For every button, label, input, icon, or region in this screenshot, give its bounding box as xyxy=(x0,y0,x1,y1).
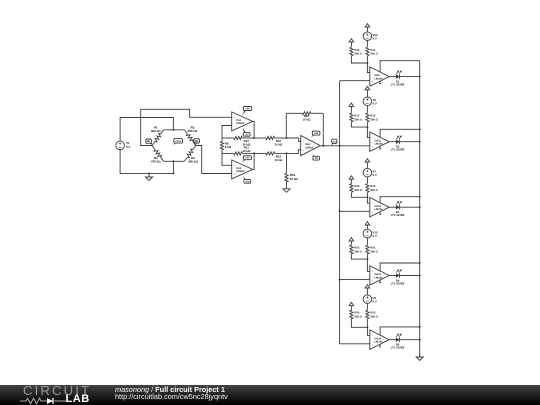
svg-text:LTL-307EE: LTL-307EE xyxy=(391,83,405,86)
svg-text:5 V: 5 V xyxy=(373,300,377,304)
power flag (stage 1 left) xyxy=(349,39,354,47)
wire divider rail stage 5 xyxy=(351,319,367,327)
wire V12 to R21 xyxy=(366,238,368,245)
wire R23 to rail xyxy=(366,319,368,327)
wire OA6 V+ to right bus xyxy=(380,61,420,72)
wire bridge bottom edge xyxy=(164,160,185,162)
wire D1 to right bus xyxy=(399,76,419,78)
svg-text:-5V: -5V xyxy=(245,180,249,183)
junction ground tap xyxy=(148,172,150,174)
junction right bus / D5 xyxy=(419,339,421,341)
wire bus to OA13 + input xyxy=(340,279,370,281)
wire to OA13 - input xyxy=(367,259,369,271)
resistor R16 (OA3 feedback) xyxy=(286,112,302,114)
wire bridge bottom to rail xyxy=(172,161,174,173)
svg-text:W2: W2 xyxy=(195,140,199,143)
power flag (stage 5 supply) xyxy=(365,285,370,295)
resistor R22 xyxy=(350,244,352,247)
svg-text:LM324: LM324 xyxy=(236,170,245,173)
power flag -5V (OA3) xyxy=(311,154,320,160)
svg-text:R20: R20 xyxy=(354,185,359,188)
svg-text:500 Ω: 500 Ω xyxy=(354,315,362,318)
svg-text:R22: R22 xyxy=(354,247,359,250)
wire OA12 output to D3 xyxy=(389,206,396,208)
svg-text:500 Ω: 500 Ω xyxy=(354,52,362,55)
svg-text:R23: R23 xyxy=(370,312,375,315)
svg-text:500 Ω: 500 Ω xyxy=(370,315,378,318)
svg-text:10 kΩ: 10 kΩ xyxy=(303,118,312,122)
svg-text:R17: R17 xyxy=(354,115,359,118)
wire right bus (LED return) xyxy=(419,61,421,357)
wire OA2 output up xyxy=(253,153,255,169)
junction bridge bottom vertex xyxy=(172,160,174,162)
wire to OA12 - input xyxy=(367,197,369,203)
wire R14 to rail xyxy=(366,56,368,63)
svg-text:800 kΩ: 800 kΩ xyxy=(188,159,198,163)
resistor R2 (bridge top-right) xyxy=(185,130,188,134)
power flag +5V (OA1) xyxy=(242,107,252,116)
op-amp OA13 LM324 xyxy=(370,266,389,285)
wire divider rail stage 3 xyxy=(351,193,367,198)
svg-text:LM324: LM324 xyxy=(374,77,383,80)
wire OA14 V- stub xyxy=(379,344,381,347)
svg-text:+5V: +5V xyxy=(314,132,319,135)
node flag Vout (OA3 output) xyxy=(331,139,337,145)
resistor R15 xyxy=(350,46,352,49)
wire V1- bottom rail xyxy=(120,150,173,174)
wire R18 to ground xyxy=(286,183,288,185)
resistor R11 (OA2 feedback) xyxy=(222,152,234,154)
wire feedback left leg xyxy=(285,113,287,138)
wire OA3 output to comparator stage xyxy=(320,145,370,147)
wire W1 tap to OA1 + xyxy=(141,109,232,145)
wire OA6 output to D1 xyxy=(389,76,396,78)
pin tick OA13 V- xyxy=(379,282,381,284)
svg-text:500 Ω: 500 Ω xyxy=(370,250,378,253)
svg-text:10 kΩ: 10 kΩ xyxy=(274,158,283,162)
wire V6 to R16 xyxy=(366,106,368,113)
wire bus to OA12 + input xyxy=(340,210,370,212)
wire OA13 V+ to right bus xyxy=(380,263,420,271)
svg-text:500 Ω: 500 Ω xyxy=(370,118,378,121)
wire R19 to rail xyxy=(366,193,368,198)
svg-text:Vout: Vout xyxy=(332,140,337,143)
wire V7 to R19 xyxy=(366,177,368,183)
wire OA14 output to D5 xyxy=(389,339,396,341)
junction OA3 - node xyxy=(285,137,287,139)
ground at right bus bottom xyxy=(416,353,423,360)
wire V10 to R14 xyxy=(366,41,368,47)
wire OA11 output to D2 xyxy=(389,141,396,143)
LED D2 xyxy=(391,135,405,151)
junction bridge top vertex xyxy=(172,129,174,131)
power flag +5V (OA3) xyxy=(311,131,320,137)
junction right bus / V+ stage 4 xyxy=(419,262,421,264)
svg-text:LM324: LM324 xyxy=(374,143,383,146)
svg-text:-5V: -5V xyxy=(314,157,318,160)
pin tick OA14 V- xyxy=(379,346,381,348)
op-amp OA11 LM324 xyxy=(370,132,389,151)
junction right bus / V+ stage 3 xyxy=(419,196,421,198)
svg-text:5 V: 5 V xyxy=(373,173,377,177)
svg-text:500 Ω: 500 Ω xyxy=(354,250,362,253)
node flag VOUT (bridge center) xyxy=(173,139,182,145)
svg-text:500 Ω: 500 Ω xyxy=(370,189,378,192)
power flag (stage 4 supply) xyxy=(365,222,370,230)
wire OA12 V+ to right bus xyxy=(380,197,420,203)
wire signal bus (left vertical) xyxy=(339,81,341,344)
junction divider node stage 1 xyxy=(366,62,368,64)
svg-text:+5V: +5V xyxy=(245,108,250,111)
wire D5 to right bus xyxy=(399,339,419,341)
wire OA1 - to top rail xyxy=(222,126,232,139)
svg-text:LM324: LM324 xyxy=(374,276,383,279)
ground at bottom rail xyxy=(146,173,153,180)
wire OA14 V+ to right bus xyxy=(380,327,420,335)
wire divider rail stage 4 xyxy=(351,254,367,259)
resistor R20 xyxy=(350,182,352,185)
wire OA1 output down xyxy=(253,121,255,138)
node bottom rail corner xyxy=(172,172,174,174)
wire to OA6 - input xyxy=(367,63,369,73)
svg-text:LTL-307EE: LTL-307EE xyxy=(391,282,405,285)
node flag W2 (bridge right) xyxy=(194,139,199,146)
wire W2 tap to OA2 + xyxy=(196,146,232,174)
svg-text:LM324: LM324 xyxy=(374,341,383,344)
svg-text:+5V: +5V xyxy=(245,157,250,160)
op-amp OA2 LM324 xyxy=(232,160,253,179)
svg-text:500 Ω: 500 Ω xyxy=(354,118,362,121)
wire bus to OA6 + input xyxy=(340,80,370,82)
wire D4 to right bus xyxy=(399,275,419,277)
junction right bus / D3 xyxy=(419,206,421,208)
LED D4 xyxy=(391,269,405,285)
wire OA13 V- stub xyxy=(379,280,381,283)
voltage source V9 xyxy=(363,295,372,304)
wire to R18 xyxy=(286,153,288,172)
resistor R21 xyxy=(366,244,368,247)
wire divider rail stage 2 xyxy=(351,122,367,127)
svg-text:10 kΩ: 10 kΩ xyxy=(242,149,251,153)
svg-text:LM324: LM324 xyxy=(236,122,245,125)
junction feedback at output xyxy=(322,145,324,147)
wire OA12 V- stub xyxy=(379,212,381,215)
junction bus stage 3 xyxy=(339,210,341,212)
wire to OA3 + input xyxy=(287,150,301,154)
svg-text:800 kΩ: 800 kΩ xyxy=(188,129,198,133)
resistor R23 xyxy=(366,309,368,312)
power flag (stage 1 supply) xyxy=(365,24,370,32)
junction bus stage 4 xyxy=(339,279,341,281)
svg-text:LM324: LM324 xyxy=(305,146,314,149)
junction OA2 out / rail xyxy=(253,152,255,154)
power flag (stage 3 supply) xyxy=(365,159,370,169)
power flag -5V (OA2) xyxy=(242,176,251,183)
wire R16 to rail xyxy=(366,122,368,127)
svg-text:4 kΩ: 4 kΩ xyxy=(225,145,232,149)
wire D2 to right bus xyxy=(399,141,419,143)
power flag (stage 5 left) xyxy=(349,302,354,309)
junction OA3 + node xyxy=(286,152,288,154)
wire to OA11 - input xyxy=(367,127,369,138)
resistor R9 (gain) xyxy=(221,138,223,141)
junction right bus / V+ stage 2 xyxy=(419,128,421,130)
resistor R19 xyxy=(366,182,368,185)
wire D3 to right bus xyxy=(399,206,419,208)
voltage source V6 xyxy=(363,97,372,106)
junction divider node stage 2 xyxy=(366,126,368,128)
wire V1+ to bridge top xyxy=(120,118,173,142)
resistor R1 (bridge top-left) xyxy=(152,141,155,145)
wire feedback right leg xyxy=(322,113,324,146)
wire to OA3 - input xyxy=(286,138,300,142)
resistor R4 (bridge bottom-right) xyxy=(193,146,196,150)
pin tick OA12 V- xyxy=(379,213,381,215)
voltage source V10 xyxy=(363,32,372,41)
svg-text:5 V: 5 V xyxy=(373,37,377,41)
resistor R24 xyxy=(350,309,352,312)
power flag (stage 2 left) xyxy=(349,103,354,113)
svg-text:R19: R19 xyxy=(370,185,375,188)
ground under R18 xyxy=(283,185,290,192)
voltage source V7 xyxy=(363,168,372,177)
svg-text:W1: W1 xyxy=(147,140,151,143)
wire to OA14 - input xyxy=(367,327,369,335)
svg-text:R16: R16 xyxy=(370,115,375,118)
svg-text:R24: R24 xyxy=(354,312,359,315)
pin tick OA6 V- xyxy=(379,83,381,85)
LED D3 xyxy=(391,201,405,217)
op-amp OA1 LM324 xyxy=(232,112,253,131)
wire divider rail stage 1 xyxy=(351,56,367,63)
svg-text:10 kΩ: 10 kΩ xyxy=(290,177,299,181)
svg-text:800 kΩ: 800 kΩ xyxy=(151,129,161,133)
wire V9 to R23 xyxy=(366,304,368,310)
power flag -5V (OA1) xyxy=(242,127,250,136)
junction right bus / D1 xyxy=(419,76,421,78)
svg-text:5 V: 5 V xyxy=(373,102,377,106)
svg-text:LTL-307EE: LTL-307EE xyxy=(391,149,405,152)
svg-text:5 V: 5 V xyxy=(373,234,377,238)
wire OA13 output to D4 xyxy=(389,275,396,277)
wire bus to OA14 + input xyxy=(340,343,370,345)
svg-text:5 V: 5 V xyxy=(126,145,130,149)
junction divider node stage 3 xyxy=(366,196,368,198)
op-amp OA14 LM324 xyxy=(370,330,389,349)
voltage source V12 xyxy=(363,229,372,238)
wire OA2 - to bottom rail xyxy=(222,153,232,165)
resistor R16 xyxy=(366,112,368,115)
wire bridge top edge xyxy=(164,129,185,131)
svg-text:500 Ω: 500 Ω xyxy=(370,52,378,55)
power flag (stage 3 left) xyxy=(349,176,354,183)
resistor R13 (to OA3 +) xyxy=(254,152,266,154)
node flag W1 (bridge left) xyxy=(146,139,152,145)
svg-text:-5V: -5V xyxy=(245,133,249,136)
junction right bus / D4 xyxy=(419,275,421,277)
power flag (stage 4 left) xyxy=(349,238,354,245)
op-amp OA6 LM324 xyxy=(370,67,389,86)
resistor R10 (OA1 feedback) xyxy=(222,137,234,139)
junction divider node stage 5 xyxy=(366,326,368,328)
junction right bus / D2 xyxy=(419,141,421,143)
power flag (stage 2 supply) xyxy=(365,86,370,97)
svg-text:LTL-307EE: LTL-307EE xyxy=(391,214,405,217)
LED D1 xyxy=(391,70,405,86)
wire R21 to rail xyxy=(366,254,368,259)
LED D5 xyxy=(391,333,405,349)
wire OA11 V- stub xyxy=(379,146,381,149)
resistor R17 xyxy=(350,112,352,115)
resistor R14 xyxy=(366,46,368,49)
svg-text:LTL-307EE: LTL-307EE xyxy=(391,347,405,350)
junction divider node stage 4 xyxy=(366,258,368,260)
wire OA6 V- stub xyxy=(379,81,381,84)
junction right bus / V+ stage 5 xyxy=(419,326,421,328)
op-amp OA12 LM324 xyxy=(370,198,389,217)
junction bus / signal in xyxy=(339,145,341,147)
resistor R18 (to ground) xyxy=(286,172,288,173)
svg-text:R21: R21 xyxy=(370,247,375,250)
resistor R12 (to OA3 -) xyxy=(254,137,266,139)
svg-text:LM324: LM324 xyxy=(374,208,383,211)
voltage source V1 xyxy=(116,141,125,150)
wire OA11 V+ to right bus xyxy=(380,129,420,137)
svg-text:500 Ω: 500 Ω xyxy=(354,189,362,192)
junction OA1 out / rail xyxy=(253,137,255,139)
resistor R3 (bridge bottom-left) xyxy=(161,157,164,161)
pin tick OA11 V- xyxy=(379,148,381,150)
svg-text:VOUT: VOUT xyxy=(175,140,182,143)
svg-text:10 kΩ: 10 kΩ xyxy=(274,143,283,147)
svg-text:470 kΩ: 470 kΩ xyxy=(151,159,161,163)
op-amp OA3 LM324 xyxy=(301,136,321,156)
power flag +5V (OA2) xyxy=(242,156,252,163)
